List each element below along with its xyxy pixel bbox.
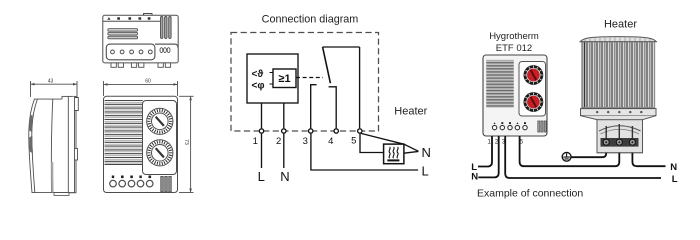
- heater terminal block arch: [599, 126, 641, 131]
- side view louver wedge 1: [29, 115, 32, 133]
- top view small ovals: [160, 48, 163, 53]
- dimension 43 line: [31, 83, 78, 85]
- svg-text:N: N: [670, 162, 677, 173]
- svg-text:ETF 012: ETF 012: [496, 43, 532, 54]
- hygrotherm wire terminal numbers: [488, 140, 524, 146]
- svg-text:<ϑ: <ϑ: [252, 69, 264, 80]
- PE earth symbol: [562, 152, 571, 161]
- dimension 60 line: [104, 83, 178, 85]
- top view rim line: [103, 20, 160, 22]
- svg-text:<φ: <φ: [252, 80, 265, 91]
- dashed control link: [296, 77, 323, 79]
- side view inner seam: [51, 99, 52, 193]
- hygrostat/thermostat sensor box U1: [247, 54, 298, 103]
- heater terminal screw R: [629, 139, 635, 145]
- side view front seam: [32, 99, 38, 193]
- hygrotherm terminal marks: [494, 122, 526, 124]
- terminal 1: [259, 129, 263, 133]
- side view base tab: [54, 193, 69, 196]
- dimension 43 extension lines: [30, 81, 32, 97]
- wire sensor box to terminal 2: [283, 103, 285, 128]
- side view body outline: [29, 96, 75, 192]
- heater element E1: [384, 144, 404, 164]
- wire terminal 5 riser: [359, 47, 361, 128]
- wire heater earth to PE symbol: [571, 153, 606, 158]
- svg-text:4: 4: [328, 136, 333, 147]
- terminal 4: [334, 129, 338, 133]
- wire sensor box to terminal 1: [261, 103, 263, 128]
- hygrotherm louvers: [486, 60, 513, 108]
- side view din clip top: [72, 98, 79, 120]
- wire terminal 5 elbow to heater: [360, 134, 384, 153]
- wire heater right to N right: [632, 153, 665, 167]
- side view louver wedge 2: [29, 136, 33, 154]
- front view knob 2: [147, 140, 173, 166]
- top view vent slot 1: [108, 29, 138, 32]
- svg-text:L: L: [422, 163, 429, 178]
- wire terminal 2 to N: [283, 134, 285, 168]
- terminal strip screw holes: [111, 50, 115, 54]
- wire terminal 3 to heater L line: [311, 134, 418, 170]
- wires of example: [478, 136, 666, 178]
- svg-text:Example of connection: Example of connection: [477, 188, 583, 200]
- switch contact for terminal 3: [311, 85, 317, 129]
- front view louvers: [105, 101, 143, 165]
- side view din clip bottom: [72, 149, 78, 161]
- svg-text:L: L: [258, 169, 265, 184]
- wire hygrotherm 5 to heater mid: [520, 136, 620, 166]
- heater terminal wires internal: [606, 124, 632, 138]
- heater top cap: [580, 37, 657, 42]
- svg-text:Hygrotherm: Hygrotherm: [489, 31, 539, 42]
- wire L to hygrotherm 1: [478, 136, 492, 167]
- svg-text:3: 3: [303, 136, 308, 147]
- terminal 5: [358, 129, 362, 133]
- wire sensor theta to OR gate: [270, 72, 274, 74]
- svg-text:≥1: ≥1: [278, 73, 290, 85]
- top view body outline: [103, 15, 178, 63]
- hygrotherm terminal screws: [492, 125, 527, 129]
- svg-text:5: 5: [351, 136, 356, 147]
- heater finned body: [582, 42, 655, 109]
- svg-text:Heater: Heater: [394, 106, 427, 118]
- top view terminal marks: [107, 17, 150, 20]
- dimension 73 line: [190, 96, 192, 192]
- wire switch top bar: [323, 46, 360, 48]
- dashed enclosure border: [231, 33, 379, 132]
- top view vent slot 3: [108, 36, 138, 39]
- wire hygrotherm 3 to L right: [505, 136, 661, 178]
- svg-text:N: N: [280, 169, 289, 184]
- OR gate >=1: [273, 69, 296, 88]
- svg-text:2: 2: [276, 136, 281, 147]
- svg-text:N: N: [471, 172, 478, 183]
- svg-text:Connection diagram: Connection diagram: [262, 13, 359, 25]
- front view clamp bars: [161, 177, 163, 192]
- top view notch step: [144, 14, 153, 16]
- svg-text:60: 60: [145, 79, 151, 85]
- svg-text:L: L: [672, 174, 678, 185]
- hygrotherm clamp bars: [538, 121, 546, 132]
- terminal number labels: [253, 136, 357, 148]
- front view knob 1: [147, 108, 173, 134]
- front view terminal screws: [110, 180, 117, 187]
- switch blade S1: [323, 47, 331, 83]
- terminal 3: [309, 129, 313, 133]
- front view knob panel: [143, 101, 177, 175]
- svg-text:N: N: [422, 145, 431, 160]
- wire terminal 5 diagonal to N: [361, 133, 419, 151]
- wire sensor phi to OR gate: [270, 83, 274, 85]
- hygrotherm ETF 012 body: [483, 55, 547, 136]
- hygrotherm knob panel: [519, 62, 546, 117]
- heater terminal screw mid: [616, 139, 622, 145]
- top view vent slot 2: [108, 32, 138, 35]
- heater flange: [581, 109, 657, 116]
- switch contact for terminal 4: [329, 87, 337, 128]
- top view terminal strip: [106, 44, 155, 60]
- heater terminal block: [581, 116, 657, 153]
- heater terminal screw L: [603, 139, 609, 145]
- terminal 2: [282, 129, 286, 133]
- side view rear seam: [67, 96, 69, 192]
- svg-text:73: 73: [183, 139, 189, 145]
- front view terminal labels: [112, 176, 151, 179]
- side view rear plate: [62, 96, 76, 192]
- wire N to hygrotherm 2: [478, 136, 498, 177]
- hygrotherm knob 2 (humidity): [524, 92, 544, 112]
- heater terminal dark strip: [601, 138, 639, 147]
- top view mounting tabs: [111, 63, 171, 67]
- front view body outline: [104, 96, 178, 192]
- wire heater to N: [404, 151, 419, 153]
- svg-text:Heater: Heater: [604, 19, 637, 31]
- svg-text:1: 1: [253, 136, 258, 147]
- svg-text:1: 1: [488, 140, 492, 146]
- wire terminal 1 to L: [261, 134, 263, 168]
- top view clamp bars: [161, 17, 163, 39]
- hygrotherm knob 1 (temperature): [524, 65, 544, 85]
